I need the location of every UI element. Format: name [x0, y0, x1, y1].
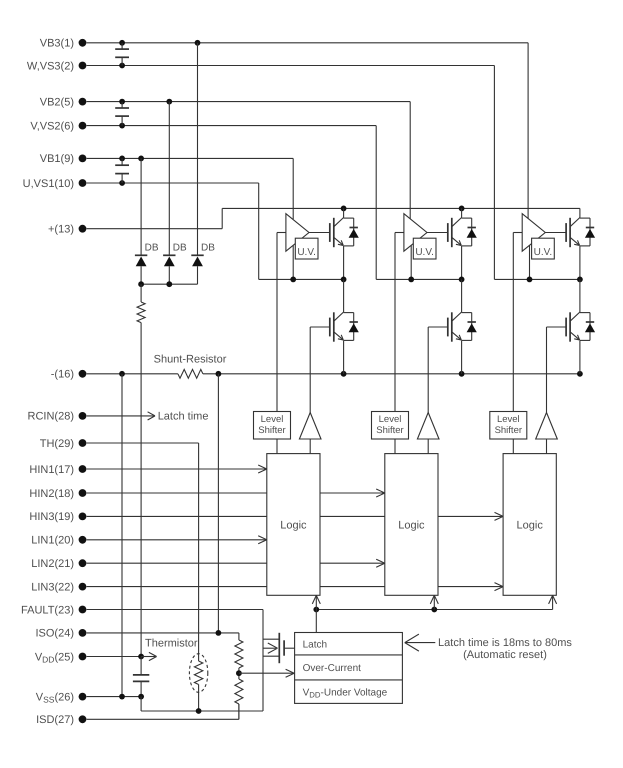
svg-text:Logic: Logic [280, 520, 307, 532]
svg-text:U.V.: U.V. [534, 247, 553, 258]
svg-text:U.V.: U.V. [297, 247, 316, 258]
svg-text:ISO(24): ISO(24) [35, 628, 74, 640]
svg-text:TH(29): TH(29) [40, 438, 74, 450]
svg-text:HIN3(19): HIN3(19) [29, 511, 74, 523]
svg-text:W,VS3(2): W,VS3(2) [27, 60, 74, 72]
svg-text:ISD(27): ISD(27) [36, 714, 74, 726]
svg-text:V,VS2(6): V,VS2(6) [30, 120, 74, 132]
svg-text:Logic: Logic [398, 520, 425, 532]
svg-text:Level: Level [379, 414, 402, 425]
svg-text:VB2(5): VB2(5) [40, 96, 74, 108]
svg-text:DB: DB [201, 243, 215, 254]
svg-text:DB: DB [145, 243, 159, 254]
svg-text:Level: Level [497, 414, 520, 425]
svg-text:VB1(9): VB1(9) [40, 153, 74, 165]
svg-text:(Automatic reset): (Automatic reset) [463, 649, 547, 661]
svg-text:LIN2(21): LIN2(21) [31, 558, 74, 570]
svg-text:Level: Level [261, 414, 284, 425]
svg-text:Latch: Latch [303, 639, 327, 650]
svg-text:Shifter: Shifter [495, 425, 522, 436]
svg-text:Shifter: Shifter [258, 425, 285, 436]
svg-text:-(16): -(16) [51, 369, 74, 381]
svg-text:HIN2(18): HIN2(18) [29, 488, 74, 500]
svg-text:U,VS1(10): U,VS1(10) [23, 178, 74, 190]
svg-text:RCIN(28): RCIN(28) [28, 411, 74, 423]
svg-text:Over-Current: Over-Current [303, 663, 362, 674]
svg-text:DB: DB [173, 243, 187, 254]
svg-text:Shunt-Resistor: Shunt-Resistor [154, 354, 227, 366]
svg-text:Thermistor: Thermistor [145, 638, 198, 650]
svg-text:VB3(1): VB3(1) [40, 38, 74, 50]
svg-text:VSS(26): VSS(26) [36, 691, 74, 704]
svg-text:LIN1(20): LIN1(20) [31, 535, 74, 547]
svg-text:Shifter: Shifter [376, 425, 403, 436]
svg-text:Logic: Logic [517, 520, 544, 532]
svg-text:HIN1(17): HIN1(17) [29, 464, 74, 476]
svg-text:Latch time: Latch time [158, 411, 209, 423]
svg-text:FAULT(23): FAULT(23) [21, 604, 74, 616]
svg-text:Latch time is 18ms to 80ms: Latch time is 18ms to 80ms [438, 637, 572, 649]
svg-text:LIN3(22): LIN3(22) [31, 581, 74, 593]
svg-text:+(13): +(13) [48, 224, 74, 236]
svg-text:VDD(25): VDD(25) [35, 651, 74, 664]
svg-text:U.V.: U.V. [415, 247, 434, 258]
